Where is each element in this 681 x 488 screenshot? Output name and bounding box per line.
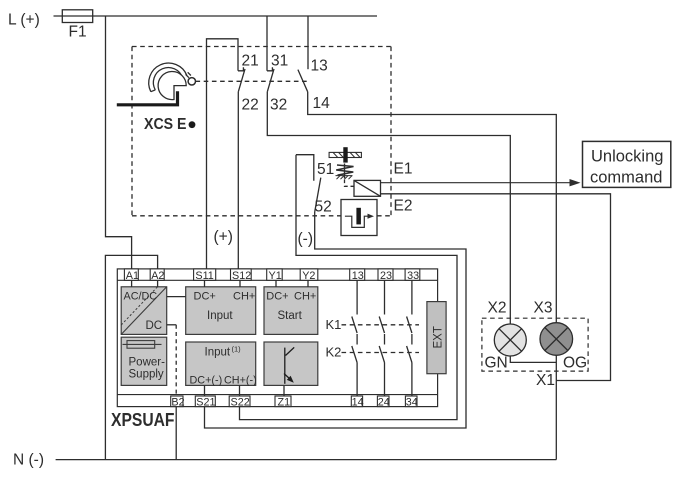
contact 13-14 (NO) <box>298 70 308 92</box>
svg-text:Start: Start <box>278 310 303 322</box>
svg-text:E1: E1 <box>394 160 413 177</box>
svg-text:command: command <box>590 169 662 187</box>
block EXT <box>427 302 446 374</box>
solenoid guide (hatched block) <box>329 152 361 157</box>
svg-text:21: 21 <box>242 52 259 69</box>
wire rail to 13 <box>307 16 309 69</box>
wire 32 to lamp X2 <box>267 92 510 324</box>
svg-text:S21: S21 <box>196 396 215 408</box>
wire 22 to S12 <box>237 92 239 269</box>
XCS E enclosure (dashed) <box>132 47 391 216</box>
svg-text:31: 31 <box>271 52 288 69</box>
svg-text:XPSUAF: XPSUAF <box>111 410 175 430</box>
terminal 24 <box>377 396 389 408</box>
svg-text:DC+(-): DC+(-) <box>190 375 223 387</box>
wire (-) 51-bridge to S22 (wrap right) <box>240 155 458 420</box>
svg-text:Z1: Z1 <box>278 396 291 408</box>
wire B2 to N- <box>175 407 177 460</box>
wire X2 bottom to common <box>510 356 556 362</box>
wire rail to 31 <box>266 16 268 71</box>
svg-text:OG: OG <box>563 354 587 371</box>
svg-text:A1: A1 <box>126 270 139 282</box>
svg-text:AC/DC: AC/DC <box>124 291 158 303</box>
svg-text:S12: S12 <box>232 270 251 282</box>
svg-text:X3: X3 <box>534 299 553 316</box>
wire A1 internal <box>131 280 133 287</box>
wire S22 internal <box>239 385 241 396</box>
contact 51-52 and feed bridge <box>296 155 321 212</box>
lamp X3 (OG) <box>540 323 573 356</box>
svg-text:K1: K1 <box>326 317 342 332</box>
wire S11 loop (+) <box>207 39 239 269</box>
svg-text:X1: X1 <box>536 372 555 389</box>
svg-text:X2: X2 <box>488 299 507 316</box>
contact 21-22 (NC) <box>238 67 245 92</box>
terminal 34 <box>405 396 417 408</box>
svg-text:Input: Input <box>207 310 233 322</box>
contacts K1/K2 column 13-14 <box>352 280 357 396</box>
lamp enclosure (dashed) <box>482 318 588 371</box>
fuse F1 <box>62 10 92 23</box>
svg-text:K2: K2 <box>326 345 342 360</box>
wire 52 to S21 (wrap right) <box>205 212 467 428</box>
wire DC to B2 (dashed) <box>175 325 177 396</box>
svg-text:CH+: CH+ <box>294 291 316 303</box>
contacts K1/K2 column 23-24 <box>379 280 384 396</box>
wire L+ to A1 <box>106 16 132 269</box>
wire Z1 internal <box>283 385 285 396</box>
terminal 13 <box>350 269 365 282</box>
wire Y1 internal <box>275 280 277 287</box>
terminal S21 <box>195 396 215 408</box>
bullet after XCS E <box>189 121 196 128</box>
svg-text:52: 52 <box>315 199 332 216</box>
switch XCS E cam head <box>149 63 196 100</box>
svg-text:DC: DC <box>146 320 163 332</box>
svg-text:CH+(-): CH+(-) <box>224 375 257 387</box>
terminal 14 <box>351 396 363 408</box>
solenoid locking bolt (thick) <box>343 147 347 162</box>
terminal 33 <box>405 269 420 282</box>
svg-text:DC+: DC+ <box>266 291 288 303</box>
wire N- rail <box>56 459 557 461</box>
mechanical link (dashed) cam to contacts <box>196 80 309 82</box>
svg-text:Input: Input <box>205 347 231 359</box>
wire DC output <box>167 324 177 326</box>
wire X3 bottom to N- <box>555 355 557 459</box>
svg-text:Power-: Power- <box>129 357 166 369</box>
svg-text:Y1: Y1 <box>269 270 282 282</box>
terminal Y2 <box>300 269 318 282</box>
contact 31-32 (NC) <box>267 67 274 92</box>
terminal A2 <box>150 269 164 282</box>
terminal S22 <box>229 396 250 408</box>
svg-text:23: 23 <box>380 270 392 282</box>
wire S11 internal <box>204 280 206 287</box>
svg-text:XCS E: XCS E <box>144 116 187 133</box>
svg-text:Y2: Y2 <box>302 270 315 282</box>
unlock pulse box <box>341 200 377 236</box>
wire S12 internal <box>239 280 241 287</box>
wire S21 internal <box>204 385 206 396</box>
contacts K1/K2 column 33-34 <box>407 280 412 396</box>
svg-text:S11: S11 <box>195 270 213 282</box>
svg-text:(+): (+) <box>214 229 233 246</box>
wire A2 to N- <box>105 255 157 459</box>
svg-text:S22: S22 <box>231 396 250 408</box>
spring <box>336 164 353 179</box>
terminal S12 <box>231 269 252 282</box>
terminal S11 <box>194 269 216 282</box>
svg-text:B2: B2 <box>171 396 184 408</box>
svg-text:51: 51 <box>317 161 334 178</box>
terminal A1 <box>124 269 139 282</box>
svg-text:14: 14 <box>352 396 364 408</box>
link K2 (dashed) <box>342 352 420 354</box>
terminal 23 <box>378 269 393 282</box>
svg-text:CH+: CH+ <box>233 291 255 303</box>
terminal B2 <box>171 396 185 408</box>
block input (top) <box>186 287 256 335</box>
wire L+ rail <box>54 15 378 17</box>
block output switch <box>264 342 318 385</box>
svg-text:33: 33 <box>407 270 419 282</box>
actuator plunger (thick) <box>117 91 178 105</box>
block start <box>264 287 318 335</box>
svg-text:L (+): L (+) <box>8 12 40 29</box>
wire AC/DC to input <box>167 296 186 298</box>
block input(1) (bottom) <box>186 342 257 387</box>
svg-text:(1): (1) <box>232 345 242 354</box>
terminal Y1 <box>267 269 283 282</box>
mechanical link (dashed) spring to coil box <box>345 180 355 187</box>
XPSUAF safety relay outline <box>117 269 437 407</box>
svg-text:32: 32 <box>270 97 287 114</box>
lamp X2 (GN) <box>494 324 526 356</box>
svg-text:F1: F1 <box>69 24 87 41</box>
terminal Z1 <box>275 396 291 408</box>
svg-text:34: 34 <box>406 396 418 408</box>
svg-text:A2: A2 <box>151 270 164 282</box>
svg-text:E2: E2 <box>394 197 413 214</box>
svg-text:N (-): N (-) <box>13 452 44 469</box>
svg-text:13: 13 <box>352 270 364 282</box>
wire E1 arrow to unlocking command <box>381 182 578 184</box>
wire E2 return to lamp common <box>381 194 611 381</box>
unlocking command box <box>583 141 671 187</box>
solenoid coil box (diagonal) <box>354 180 381 196</box>
svg-text:EXT: EXT <box>433 326 445 348</box>
svg-text:14: 14 <box>313 95 331 112</box>
wire Y2 internal <box>307 280 309 287</box>
svg-text:DC+: DC+ <box>194 291 216 303</box>
block power supply <box>121 337 167 385</box>
block AC/DC converter <box>121 287 167 335</box>
wire A2 internal <box>157 280 159 287</box>
svg-text:22: 22 <box>242 97 259 114</box>
spring support hatching <box>336 176 353 180</box>
svg-text:24: 24 <box>378 396 390 408</box>
svg-text:GN: GN <box>485 354 508 371</box>
wire 14 to lamp X3 <box>308 92 557 323</box>
svg-text:(-): (-) <box>298 231 314 248</box>
svg-text:Unlocking: Unlocking <box>591 148 663 166</box>
svg-text:13: 13 <box>311 58 328 75</box>
svg-text:Supply: Supply <box>129 369 164 381</box>
link K1 (dashed) <box>342 324 420 326</box>
